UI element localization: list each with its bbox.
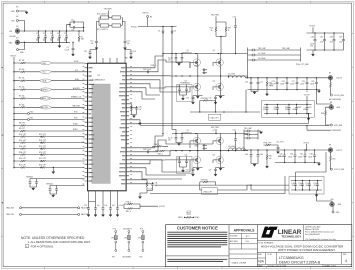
resistor R14 R15 divider (13, 146, 84, 150)
resistor PGB_OPT ch1 (264, 141, 284, 146)
svg-text:TSNS1A: TSNS1A (46, 182, 53, 185)
svg-text:R21 OPT: R21 OPT (39, 158, 46, 160)
capacitor C34 opt (295, 104, 301, 115)
snubber caps TBD ch0 (247, 47, 309, 79)
svg-text:C48: C48 (310, 154, 313, 156)
svg-text:C32: C32 (274, 107, 277, 109)
svg-text:C50: C50 (299, 183, 302, 185)
svg-text:INTVCC: INTVCC (143, 13, 150, 15)
capacitor C30 ITH1 (129, 180, 157, 199)
svg-text:ALERTB: ALERTB (73, 87, 80, 90)
svg-text:R5 10k: R5 10k (19, 87, 25, 89)
U1 right pin stubs (126, 68, 129, 184)
jumper JP1 (111, 228, 117, 258)
capacitor C48 output ch1 (310, 149, 316, 163)
svg-text:R23 OPT: R23 OPT (39, 165, 46, 167)
ground U1 pgnd (129, 120, 141, 125)
svg-text:1uF: 1uF (269, 158, 272, 160)
wire junctions (175, 75, 190, 151)
svg-text:APP ENG.: APP ENG. (230, 240, 238, 243)
svg-text:C26: C26 (282, 81, 285, 83)
svg-text:PGB_OPT: PGB_OPT (264, 143, 272, 145)
capacitor C28 output (302, 77, 309, 90)
svg-text:25V: 25V (310, 45, 313, 47)
svg-text:N/A: N/A (258, 259, 264, 263)
capacitor C31 opt (263, 104, 268, 115)
U1 left pin stubs (85, 64, 88, 182)
svg-text:16V: 16V (168, 140, 171, 142)
svg-text:WITH POWER SYSTEM MANAGEMENT: WITH POWER SYSTEM MANAGEMENT (278, 248, 335, 252)
svg-text:C60: C60 (177, 86, 180, 88)
capacitor C39 (339, 33, 345, 50)
svg-text:SCL: SCL (43, 72, 46, 74)
transistor package outlines (193, 59, 223, 164)
transistor Q3 (213, 50, 221, 76)
svg-text:C34: C34 (298, 107, 301, 109)
svg-text:P20: P20 (139, 256, 142, 258)
title block frame (166, 225, 352, 267)
capacitor C17 input (168, 53, 183, 66)
resistor R34 freq (178, 211, 200, 219)
svg-text:100uF: 100uF (280, 83, 284, 85)
svg-text:SYNC: SYNC (42, 63, 47, 65)
wire GND rail ch0 (248, 90, 321, 93)
capacitor C56 (109, 202, 115, 217)
resistor R4 pullup SDA (13, 78, 84, 83)
svg-text:1. ALL RESISTORS AND CAPACITO: 1. ALL RESISTORS AND CAPACITORS ARE 0603… (28, 240, 91, 244)
capacitor C8 (70, 19, 84, 23)
svg-text:R22 OPT: R22 OPT (19, 165, 26, 167)
jumper JP3 (138, 228, 144, 258)
svg-text:R26 TBD: R26 TBD (201, 98, 209, 100)
wire SW1 rail (170, 150, 248, 151)
inductor L2 (228, 146, 331, 150)
svg-text:VDD33EXT: VDD33EXT (122, 256, 131, 258)
svg-text:470uF: 470uF (274, 109, 278, 111)
date row (258, 264, 336, 267)
svg-text:C33: C33 (285, 107, 288, 109)
resistor R20 R21 divider (13, 158, 84, 162)
resistor PGB_1 (152, 144, 168, 147)
resistor PGB_C (151, 65, 158, 67)
svg-text:C36: C36 (311, 36, 314, 38)
svg-text:R33 TBD: R33 TBD (201, 179, 209, 181)
svg-text:10uF: 10uF (320, 41, 324, 43)
transistor Q7 (213, 130, 221, 151)
capacitor boost ch1 (143, 149, 151, 153)
svg-text:C53: C53 (84, 205, 87, 207)
svg-text:1uF: 1uF (91, 43, 94, 45)
turret E8 GND (317, 90, 341, 110)
svg-text:E4: E4 (16, 16, 18, 18)
capacitor C10b ch0 (245, 77, 263, 94)
svg-text:0.1uF: 0.1uF (148, 188, 152, 190)
svg-text:1uF: 1uF (97, 205, 100, 207)
svg-text:C44: C44 (260, 154, 263, 156)
svg-text:C11: C11 (127, 41, 130, 43)
wire VIN rail (20, 30, 84, 32)
svg-text:1nF: 1nF (138, 109, 141, 111)
U1 right pin name texture (119, 68, 125, 184)
capacitor boost ch0 (143, 69, 151, 73)
wire (18, 21, 24, 32)
capacitor C41 input ch1 (168, 133, 183, 146)
U1 bottom pin stubs (89, 191, 118, 194)
resistor R6 pullup SHARE_CLK (13, 95, 84, 100)
capacitor C14 TSNS0 (26, 175, 85, 190)
ground (72, 53, 75, 56)
note text (21, 236, 91, 249)
svg-text:2k: 2k (228, 30, 230, 32)
ground (58, 42, 61, 47)
svg-text:10uF: 10uF (36, 38, 40, 40)
wire under U1 (89, 194, 118, 202)
resistor R29 ch0 (266, 77, 272, 96)
svg-text:E7: E7 (329, 72, 331, 74)
svg-text:TBD_CAP: TBD_CAP (282, 47, 291, 50)
capacitor C29 output (311, 77, 318, 90)
svg-text:VOUT0: VOUT0 (309, 26, 315, 28)
svg-text:VIN_PWR: VIN_PWR (211, 127, 219, 129)
svg-text:VOUT1_SNS: VOUT1_SNS (334, 169, 345, 171)
svg-text:C27: C27 (292, 81, 295, 83)
turret E7 VOUT0 (328, 72, 342, 80)
capacitor C27 output (292, 77, 299, 90)
capacitor C35 opt (306, 104, 312, 115)
svg-text:C18: C18 (186, 98, 189, 100)
connector FAULT0B pads (7, 207, 90, 210)
svg-text:470uF: 470uF (293, 109, 297, 111)
wire into IC top (90, 50, 131, 63)
svg-text:10uF: 10uF (57, 38, 61, 40)
svg-text:Q3: Q3 (213, 50, 215, 52)
svg-text:C10: C10 (245, 82, 248, 84)
resistor TBD_0 (124, 204, 165, 213)
capacitor C45 output ch1 (279, 149, 286, 163)
svg-text:SCL: SCL (75, 70, 78, 72)
svg-text:BSC0: BSC0 (195, 66, 199, 68)
wire GND rail ch1 (275, 163, 320, 166)
svg-text:BSC0: BSC0 (195, 146, 199, 148)
resistor R1 (78, 30, 85, 42)
svg-text:R3 10k: R3 10k (19, 69, 25, 71)
turret E2 GND (9, 38, 20, 45)
connector PG1 pad (13, 117, 84, 120)
capacitor C12 (84, 50, 91, 59)
svg-text:Milpitas, CA 95035: Milpitas, CA 95035 (305, 228, 319, 231)
svg-text:PGB_0: PGB_0 (126, 202, 132, 204)
wire (97, 18, 126, 32)
svg-text:VDD33EXT: VDD33EXT (123, 228, 132, 230)
resistor R26 TBD ch0 (200, 98, 216, 101)
svg-text:C62 0.1uF: C62 0.1uF (143, 69, 151, 71)
transistor Q2 (181, 76, 198, 96)
svg-text:VOUT0: VOUT0 (336, 78, 342, 80)
label VIN_PWR (100, 8, 122, 17)
resistor R3 pullup SCL (13, 69, 84, 74)
connector VOUT0_SNS (330, 94, 344, 97)
svg-text:JP3: JP3 (138, 238, 141, 240)
svg-text:ALERTB: ALERTB (41, 88, 48, 91)
capacitor C25 output (270, 77, 278, 90)
capacitor C15 TSNS1 (46, 182, 85, 197)
svg-text:C10: C10 (90, 41, 93, 43)
svg-text:C29: C29 (311, 81, 314, 83)
svg-text:TBD_CAP: TBD_CAP (258, 47, 267, 50)
diode D1 (158, 27, 164, 135)
wire fan U1 to ch0 gates (129, 56, 190, 99)
svg-text:E9: E9 (329, 145, 331, 147)
svg-text:C31: C31 (263, 107, 266, 109)
svg-text:470uF: 470uF (303, 109, 307, 111)
svg-text:FAULT1B: FAULT1B (7, 213, 15, 216)
svg-text:100uF: 100uF (298, 156, 302, 158)
svg-text:R12 OPT: R12 OPT (19, 140, 26, 142)
top right cap bank INTVCC (307, 26, 344, 56)
capacitor C33 opt (285, 104, 290, 115)
svg-text:R10 OPT: R10 OPT (19, 134, 26, 136)
svg-text:E6: E6 (150, 16, 152, 18)
customer notice box (166, 225, 229, 261)
capacitor C9 (65, 42, 75, 54)
ITH0 compensation R C (129, 104, 141, 118)
svg-text:FOR # OPTIONAL: FOR # OPTIONAL (31, 245, 54, 249)
capacitor C49 opt (292, 180, 297, 191)
svg-text:R8 OPT: R8 OPT (19, 123, 25, 125)
svg-text:PGNDSNS1: PGNDSNS1 (332, 130, 341, 132)
svg-text:FAULT0B: FAULT0B (41, 106, 49, 109)
wire fan U1 to ch1 gates (129, 134, 213, 180)
connector GND_SNS (330, 124, 343, 127)
resistor R33 TBD (200, 179, 216, 182)
svg-text:C35: C35 (308, 107, 311, 109)
svg-text:100uF: 100uF (300, 83, 304, 85)
label PGNDSNS0 (329, 99, 341, 101)
capacitor C64 ch1 (277, 146, 280, 154)
svg-text:E8: E8 (330, 102, 332, 104)
capacitor C1 (36, 30, 40, 43)
svg-text:FDMS86101: FDMS86101 (181, 83, 191, 85)
value labels texture (36, 38, 343, 190)
ground (52, 167, 55, 174)
capacitor C2 (43, 30, 47, 43)
svg-text:0.1uF: 0.1uF (168, 57, 172, 59)
svg-text:P17: P17 (112, 256, 115, 258)
capacitor C4 (57, 30, 61, 43)
svg-text:C46: C46 (290, 154, 293, 156)
svg-text:JP2: JP2 (124, 238, 127, 240)
snubber caps TBD ch1 (243, 127, 262, 151)
svg-text:R4 10k: R4 10k (19, 78, 25, 80)
svg-text:100uF: 100uF (308, 156, 312, 158)
svg-text:S H: S H (246, 241, 250, 243)
svg-text:R11 OPT: R11 OPT (39, 134, 46, 136)
svg-text:470uF: 470uF (292, 185, 296, 187)
capacitor C43 (245, 149, 263, 166)
svg-text:P19: P19 (140, 228, 143, 230)
svg-text:R14 OPT: R14 OPT (19, 146, 26, 148)
svg-text:C19: C19 (209, 98, 212, 100)
wire sense lines ch0 (140, 113, 329, 130)
svg-text:PG1: PG1 (74, 118, 77, 120)
capacitor C36 (310, 32, 316, 50)
svg-text:D1: D1 (158, 30, 160, 32)
svg-text:D2: D2 (174, 30, 176, 32)
svg-text:50V: 50V (64, 40, 67, 42)
connector VOUT1_SNS (330, 168, 345, 171)
svg-text:10uF: 10uF (310, 44, 314, 46)
svg-text:C49: C49 (292, 183, 295, 185)
ground (25, 11, 28, 14)
capacitor C38 (330, 32, 336, 50)
address block (303, 225, 336, 241)
capacitor C13 (130, 50, 136, 59)
wire (83, 22, 85, 31)
U1 pin numbers texture (83, 67, 132, 185)
svg-text:E3: E3 (16, 7, 18, 9)
svg-text:C39: C39 (339, 36, 342, 38)
capacitor C47 output ch1 (300, 149, 306, 163)
turret E1 VIN (9, 26, 20, 38)
wire VIN_PWR rail ch0 (162, 53, 247, 54)
svg-text:P16: P16 (113, 228, 116, 230)
resistor R28 (321, 107, 330, 125)
approvals box (229, 229, 257, 265)
capacitor C54 (94, 202, 100, 217)
capacitor C16 (70, 26, 84, 32)
wire fan U1 to ch0 gates upper (163, 54, 190, 69)
svg-text:C8: C8 (71, 19, 73, 21)
svg-text:50V: 50V (43, 40, 46, 42)
capacitor C57 (116, 202, 123, 217)
svg-text:INTVCC: INTVCC (131, 26, 138, 28)
svg-text:VOUT0_SNS: VOUT0_SNS (334, 95, 345, 97)
svg-text:DATE:: DATE: (258, 264, 263, 267)
svg-text:E10: E10 (331, 199, 334, 201)
svg-text:100uF: 100uF (310, 83, 314, 85)
svg-text:LTC3886EUKG: LTC3886EUKG (279, 256, 304, 260)
resistor TBD_1 (155, 150, 171, 156)
svg-text:PG1: PG1 (30, 117, 33, 119)
svg-text:R28: R28 (321, 113, 324, 115)
svg-text:C52: C52 (314, 183, 317, 185)
svg-text:TBD_CAP: TBD_CAP (244, 127, 253, 130)
connector E3 GND (11, 7, 19, 13)
svg-text:NOTE: UNLESS OTHERWISE SPECIFI: NOTE: UNLESS OTHERWISE SPECIFIED (21, 236, 85, 240)
capacitor C26 output (282, 77, 289, 90)
svg-text:Q4: Q4 (213, 80, 215, 82)
svg-text:C7 470nF: C7 470nF (258, 53, 265, 55)
wire right column riser (251, 185, 289, 190)
svg-text:R20 OPT: R20 OPT (19, 158, 26, 160)
capacitor C37 (320, 32, 326, 50)
svg-text:Q8: Q8 (213, 154, 215, 156)
capacitor C55 (102, 202, 108, 217)
svg-text:PGB_1: PGB_1 (154, 144, 160, 146)
svg-text:VOUT0: VOUT0 (304, 94, 310, 96)
svg-text:1630 McCarthy Blvd.: 1630 McCarthy Blvd. (305, 225, 321, 228)
svg-text:C2: C2 (43, 33, 45, 35)
svg-text:SHARE_CLK: SHARE_CLK (71, 96, 82, 99)
capacitor C53 (84, 202, 90, 217)
capacitor C32 opt (274, 104, 279, 115)
capacitor C23 (233, 16, 237, 53)
svg-text:R18 OPT: R18 OPT (19, 152, 26, 154)
svg-text:10uF: 10uF (339, 41, 343, 43)
capacitor C10 (90, 40, 98, 50)
resistor R16 sense (97, 14, 121, 20)
svg-text:TECHNOLOGY: TECHNOLOGY (281, 235, 301, 239)
svg-text:SHEET 1 OF 4: SHEET 1 OF 4 (325, 265, 336, 267)
transistor Q5 (183, 130, 198, 151)
svg-text:FAULT0B: FAULT0B (73, 105, 81, 108)
resistor R18 R19 divider (13, 152, 84, 156)
svg-text:RUN0: RUN0 (73, 124, 78, 126)
svg-text:Q6: Q6 (185, 154, 187, 156)
resistor R24 (210, 22, 217, 36)
svg-text:VOUT0: VOUT0 (159, 206, 165, 208)
svg-text:TSNS0A: TSNS0A (26, 175, 33, 178)
svg-text:4: 4 (345, 259, 347, 263)
svg-text:PCB DES.: PCB DES. (230, 236, 238, 238)
svg-text:470uF: 470uF (314, 185, 318, 187)
svg-text:FDMS86101: FDMS86101 (183, 52, 193, 54)
resistor R5 pullup ALERTB (13, 87, 84, 92)
svg-text:0.1uF: 0.1uF (168, 137, 172, 139)
svg-text:50V: 50V (50, 40, 53, 42)
svg-text:R17 0.003 1%: R17 0.003 1% (97, 29, 108, 31)
resistor R31 (330, 152, 336, 169)
svg-text:Thursday, June 02, 2016: Thursday, June 02, 2016 (268, 264, 287, 267)
svg-text:6.3V: 6.3V (278, 156, 281, 158)
connector PG0 pad (13, 111, 84, 114)
wire (97, 31, 126, 40)
wire VOUT1 net tap (296, 142, 327, 180)
svg-text:C16: C16 (71, 30, 74, 32)
capacitor C42 ch1 top (233, 129, 237, 150)
svg-text:R7 10k: R7 10k (19, 104, 25, 106)
svg-text:R6 10k: R6 10k (19, 95, 25, 97)
svg-text:6.3V: 6.3V (270, 86, 273, 88)
svg-text:0.1uF: 0.1uF (65, 49, 69, 51)
svg-text:C13: C13 (133, 51, 136, 53)
svg-text:470uF: 470uF (263, 109, 267, 111)
svg-text:10uF: 10uF (330, 41, 334, 43)
svg-text:RUN1: RUN1 (73, 129, 78, 131)
capacitor C46 output ch1 (290, 149, 296, 163)
wire VIN_PWR ch1 label (211, 127, 219, 133)
wire INTVCC rail (131, 18, 177, 29)
U1 left pin name texture (89, 68, 95, 181)
svg-text:10uF: 10uF (43, 38, 47, 40)
turret E10 GND (317, 194, 342, 207)
capacitor C3 (50, 30, 54, 43)
label VIN_PWR ch0 (211, 15, 226, 54)
svg-text:C61: C61 (177, 158, 180, 160)
Linear Technology logo (261, 227, 302, 239)
svg-text:JP1: JP1 (111, 238, 114, 240)
svg-text:R16 0.003 1%: R16 0.003 1% (97, 14, 108, 16)
connector E6 INTVCC (143, 13, 153, 19)
svg-text:DEMO CIRCUIT 2155A-B: DEMO CIRCUIT 2155A-B (279, 260, 321, 264)
svg-text:C22: C22 (209, 170, 212, 172)
svg-text:LCT_OPT: LCT_OPT (276, 141, 284, 143)
svg-text:PG0: PG0 (74, 112, 77, 114)
svg-text:C63 0.1uF: C63 0.1uF (143, 149, 151, 151)
node VDD33 (10, 55, 16, 63)
svg-text:C43: C43 (245, 154, 248, 156)
wire SW0 rail (170, 75, 248, 76)
